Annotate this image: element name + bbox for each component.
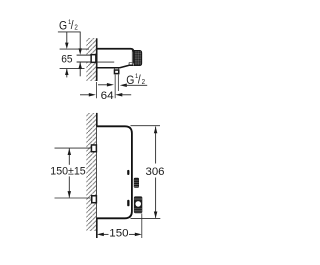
inlet union square in wall [91, 55, 96, 63]
306 dimension (right) [131, 125, 161, 127]
svg-text:65: 65 [61, 54, 72, 66]
wall hatching (bottom view) [86, 113, 96, 231]
valve body (side view) [97, 49, 134, 52]
extension lines under the stub [114, 75, 116, 99]
65 dimension extension lines [60, 48, 89, 50]
svg-text:64: 64 [101, 90, 114, 102]
150 dimension (bottom) [141, 214, 143, 239]
wall face line [96, 113, 98, 238]
arrow down to 65-extension (left drop) [66, 32, 68, 44]
inlet pipe (in wall) [77, 55, 91, 62]
small button lower (on body right edge) [127, 200, 129, 207]
svg-text:306: 306 [146, 166, 165, 178]
arrow down to pipe top (right drop) [79, 32, 81, 50]
svg-text:G: G [126, 74, 134, 87]
shower outlet stub below body [114, 68, 116, 70]
knurled control knob (side view, dark) [134, 50, 141, 65]
wall connection stub 2 [92, 196, 97, 203]
65 dimension bottom arrow (up) [66, 69, 68, 78]
64 dimension [95, 82, 97, 98]
pipe bottom arrow (up) at right drop [79, 62, 81, 76]
svg-text:150: 150 [109, 228, 128, 240]
svg-text:2: 2 [74, 24, 78, 32]
leader underline of G1/2 top [58, 31, 81, 33]
side knob (right of body) [134, 178, 139, 188]
small button upper (on body right edge) [127, 170, 129, 175]
150±15 dimension (left) [55, 147, 91, 149]
G1/2 outlet label and leader arrows [98, 84, 109, 86]
unit body outline [97, 126, 132, 218]
svg-text:G: G [59, 20, 67, 33]
wall hatching (top view) [86, 38, 96, 81]
svg-text:150±15: 150±15 [50, 165, 85, 177]
wall connection stub 1 [91, 145, 96, 152]
wall face line [96, 38, 98, 81]
label G1/2 (inlet, top-left) [59, 19, 78, 33]
shower outlet (bottom right, with port circle) [134, 196, 142, 213]
svg-text:2: 2 [142, 78, 146, 86]
